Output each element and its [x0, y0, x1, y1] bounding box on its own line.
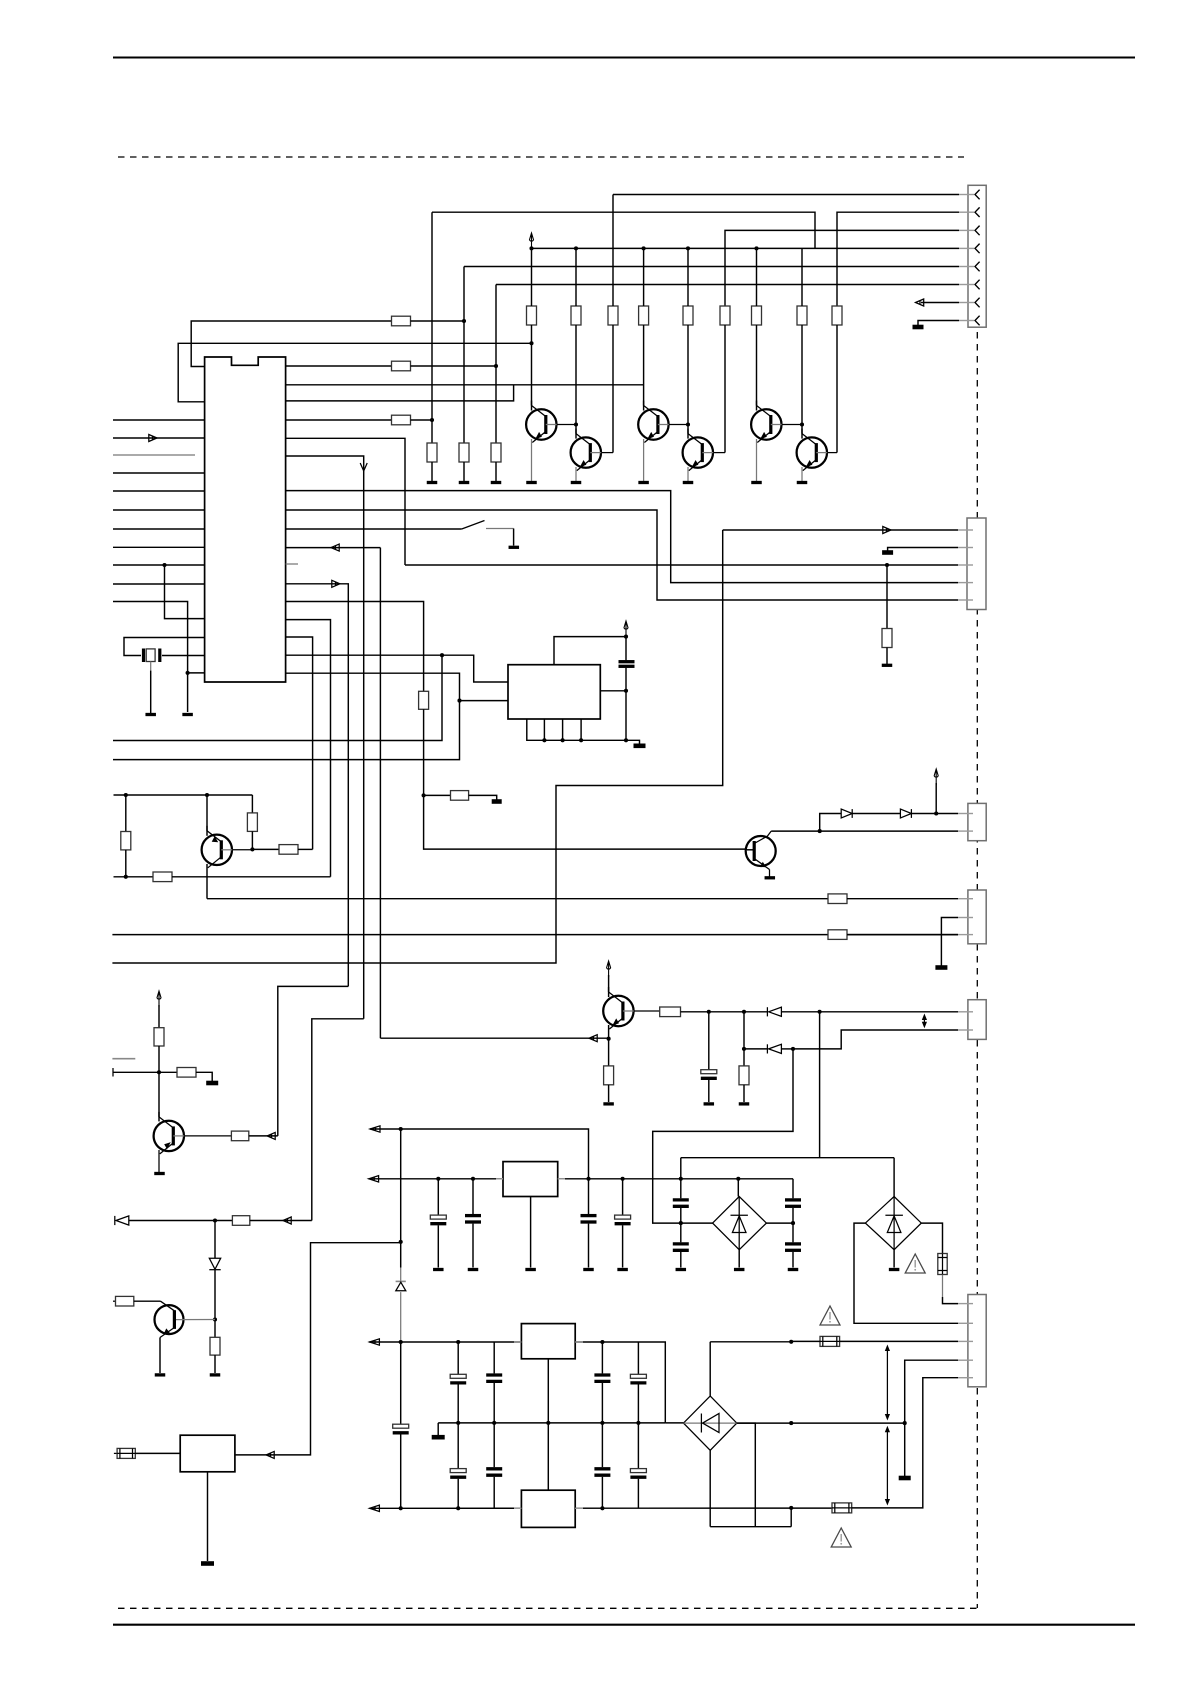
pin CN2-4 [958, 582, 973, 584]
wire BR3 bottom down [709, 1450, 711, 1526]
wire Q9 emitter down [608, 1025, 610, 1039]
wire Q4 collector drop [687, 425, 689, 439]
resistor R2 [392, 361, 411, 371]
wire ladder column x531 lower to Q1 collector [531, 325, 533, 411]
wire F3 to CN5 pin5 riser [852, 1378, 958, 1508]
wire R23 to ground [743, 1085, 745, 1102]
wire R22 to node [681, 1011, 709, 1013]
node F2 branch [789, 1340, 793, 1344]
pin CN1-3 [959, 229, 974, 231]
wire U1 pin y400 jog up [286, 385, 514, 401]
wire C14b to rail B [601, 1477, 603, 1509]
ground R23 [739, 1102, 750, 1105]
transistor Q7 [202, 835, 232, 865]
voltage regulator U2 [508, 665, 600, 719]
page bottom rule [113, 1624, 1135, 1626]
wire BR3 top riser [709, 1342, 711, 1396]
resistor R11 [828, 894, 847, 904]
tick page-left y1072 [112, 1068, 114, 1077]
node y876 R12 [124, 875, 128, 879]
offpage arrow rail A [369, 1339, 379, 1345]
signal arrow out of U1 y583 [332, 580, 340, 587]
node BR1 left rail [679, 1221, 683, 1225]
wire CN4 pin2 to ground [941, 918, 958, 966]
wire U2 output pin [600, 690, 626, 692]
ground C3 [433, 1268, 444, 1271]
ground R8 [492, 799, 502, 804]
wire U1 pin y490 to CN2 pin4 [286, 491, 958, 583]
wire supply node down to C1 [625, 637, 627, 661]
capacitor C5 [581, 1214, 597, 1217]
wire U1 pin y510 to CN2 pin5 [286, 510, 958, 600]
supply arrow Q9 [607, 961, 611, 977]
wire rail B [369, 1507, 832, 1509]
resistor ladder R x802 [797, 306, 807, 325]
fuse F3 [832, 1503, 852, 1513]
wire ladder column x802 upper [801, 248, 803, 306]
node U1 pin y672 junction [186, 671, 190, 675]
pin CN5-3 [958, 1340, 973, 1342]
wire column x725 to CN1 pin3 [725, 230, 959, 306]
resistor R13 [247, 813, 257, 832]
wire D5 to supply node [912, 813, 937, 815]
wire C8 to ground [680, 1252, 682, 1268]
pin CN1-4 [959, 247, 974, 249]
wire column x837 to CN1 pin2 [837, 212, 959, 306]
pin CN1-1 [959, 194, 974, 196]
resistor R16 [177, 1068, 196, 1078]
wire F2 to CN5 pin3 [840, 1340, 958, 1342]
node railB zener col [399, 1506, 403, 1510]
node R3 column [430, 418, 434, 422]
resistor ladder R x576 [571, 306, 581, 325]
wire C16 to rail B [400, 1434, 402, 1508]
wire ladder column x688 lower [687, 325, 689, 425]
capacitor C15 (electrolytic) [630, 1374, 646, 1378]
capacitor C4 [465, 1214, 481, 1217]
Q11 emitter diagonal [754, 859, 769, 870]
ground C6 [617, 1268, 628, 1271]
diode D3 [744, 1048, 767, 1050]
resistor R23 [739, 1066, 749, 1085]
wire U1 pin y456 down column x363 [286, 456, 364, 1019]
pin CN4-3 [958, 934, 973, 936]
node C2 top [707, 1010, 711, 1014]
signal arrow into U1 y547 [331, 544, 339, 551]
wire column x464 [463, 267, 465, 444]
node D3 branch [742, 1047, 746, 1051]
double arrow mid-railA [886, 1349, 888, 1417]
wire column x464 to CN1 pin5 [464, 266, 959, 268]
resistor R20 [116, 1296, 134, 1306]
node y700 branch [457, 699, 461, 703]
resistor R12 [121, 832, 131, 850]
bridge rectifier BR2 [865, 1197, 921, 1250]
wire Q7 collector from node [206, 795, 208, 836]
stub U4 in [514, 1341, 521, 1343]
wire R6 to ground [495, 462, 497, 481]
pin CN2-1 [958, 529, 973, 531]
node rail1129 zener column [399, 1127, 403, 1131]
resistor ladder R x613 [608, 306, 618, 325]
wire output node down to ground rail [625, 691, 627, 741]
wire y1157 link [681, 1157, 894, 1159]
wire U4 ground pin to mid rail [547, 1359, 549, 1490]
resistor R8 [451, 791, 469, 801]
offpage arrow rail y1178 [369, 1176, 379, 1182]
capacitor C15 upper lead [637, 1342, 639, 1374]
dashed board boundary top [118, 156, 964, 158]
wire supply arrow lead [935, 783, 937, 814]
node mid C15 [636, 1421, 640, 1425]
capacitor C14b [594, 1467, 610, 1470]
fuse F2 [820, 1336, 840, 1346]
wire R25 to column x312 [298, 848, 313, 850]
wire rail y876 [114, 876, 154, 878]
node BR1 top [736, 1177, 740, 1181]
resistor R1 [392, 316, 411, 326]
ground C5 [583, 1268, 594, 1271]
signal arrow y1220 [283, 1217, 291, 1224]
wire ladder column x688 upper [687, 248, 689, 306]
wire C15b to rail B [637, 1479, 639, 1509]
wire node x215 down to zener [214, 1221, 216, 1259]
Q10 emitter diagonal [160, 1328, 174, 1338]
double arrow mid-railB [886, 1430, 888, 1502]
wire R4 to ground [431, 462, 433, 481]
wire R15 to node y1072 [158, 1046, 160, 1072]
fuse F4 [117, 1448, 135, 1458]
pin CN6-2 [958, 830, 973, 832]
node rail B x791 [789, 1506, 793, 1510]
supply arrow CN6 [934, 769, 938, 785]
resistor R6 [491, 443, 501, 462]
pin CN3-2 [958, 1029, 973, 1031]
node R7 y795 [422, 793, 426, 797]
capacitor C2 (electrolytic) [701, 1070, 717, 1074]
capacitor C12 upper lead [493, 1342, 495, 1373]
pin CN4-2 [958, 917, 973, 919]
ground CN5 pin4 [899, 1476, 911, 1481]
ground Q5 emitter [756, 439, 758, 481]
wire node to R18 [215, 1220, 232, 1222]
capacitor C1 plates [619, 660, 635, 663]
wire U2 ground pin2 [543, 719, 545, 740]
wire zener column x400 [400, 1129, 402, 1268]
transistor Q1 [526, 409, 556, 439]
offpage arrow rail B [369, 1505, 379, 1511]
supply arrow VDD bus [529, 233, 533, 249]
ground CN1 pin8 [913, 325, 924, 330]
offpage arrow rail y1129 [370, 1126, 380, 1132]
node railA zener [399, 1340, 403, 1344]
ground R21 [603, 1102, 614, 1105]
capacitor C5 lead [588, 1179, 590, 1214]
wire BR3 left from mid rail [665, 1422, 683, 1424]
wire C12b to rail B [493, 1477, 495, 1509]
wire bridge BR1 ac2 from node x819 [819, 1012, 821, 1158]
resistor ladder R x531 [527, 306, 537, 325]
node BR1 right rail [791, 1221, 795, 1225]
capacitor C8 [673, 1242, 689, 1245]
wire link x363 to x311 column [312, 1019, 364, 1221]
wire left pin y601 to crystal ground node [113, 602, 188, 713]
node gnd pin2 [542, 738, 546, 742]
capacitor C11 (electrolytic) [450, 1374, 466, 1378]
node ground rail x626 [624, 738, 628, 742]
resistor ladder R x725 [720, 306, 730, 325]
wire x680 drop to rail [680, 1158, 682, 1179]
wire S1 to ground [513, 529, 515, 546]
wire Y2 output to column x310 [235, 1243, 401, 1455]
wire ground rail stub [626, 740, 640, 744]
wire rail A right segment to fuse F2 [710, 1341, 791, 1343]
node C4 [471, 1177, 475, 1181]
resistor R4 [427, 443, 437, 462]
ground Q2 emitter [575, 467, 577, 481]
wire C11b to rail B [457, 1479, 459, 1509]
wire loop riser to rail B [790, 1508, 792, 1527]
switch S1 blade [462, 521, 485, 530]
warning triangle W1 [905, 1254, 925, 1273]
signal arrow down on x363 column [360, 463, 367, 471]
wire CN1 pin2 jog segment [432, 212, 815, 248]
connector CN2 [967, 518, 986, 610]
wire bridge BR1 ac1 from node x793 [653, 1049, 793, 1223]
wire C10 to ground [792, 1252, 794, 1268]
ground C2 [704, 1102, 715, 1105]
wire U2 ground pin3 [562, 719, 564, 740]
ground Q6 emitter [801, 467, 803, 481]
node railB C11b [456, 1506, 460, 1510]
wire ladder column x643 upper [643, 248, 645, 306]
transistor Q10 (mirrored, base left) [155, 1305, 184, 1334]
wire rail corner x793 down through C9 [792, 1179, 794, 1199]
wire regulator rail y1178 [369, 1178, 793, 1180]
wire column x496 to CN1 pin6 [496, 284, 959, 286]
wire node x819 to CN3 pin1 [820, 1011, 958, 1013]
wire U1 pin y619 to column x330 [286, 620, 331, 877]
node C6 [621, 1177, 625, 1181]
transistor Q2 [571, 437, 601, 467]
ground crystal case [145, 713, 156, 716]
wire R19 to ground [214, 1355, 216, 1373]
wire column x432 [431, 212, 433, 443]
node mid C11 [456, 1421, 460, 1425]
wire supply to R15 [158, 1005, 160, 1028]
connector CN6 [968, 803, 986, 840]
capacitor C4 lead [472, 1179, 474, 1214]
wire node x793 to CN3 pin2 [793, 1030, 958, 1049]
ground R5 [459, 481, 470, 484]
wire R13 to base node [251, 831, 253, 849]
offpage arrow CN1 pin7 [916, 299, 924, 306]
zener DZ2 [396, 1280, 406, 1282]
node x680 rail [679, 1177, 683, 1181]
wire R18 to column x311 [250, 1220, 312, 1222]
capacitor C3 (electrolytic) [430, 1215, 446, 1219]
pin CN1-6 [959, 284, 974, 286]
wire DZ2 to rail A [400, 1292, 402, 1342]
dashed board boundary right [976, 332, 978, 1608]
wire page edge to node y1072 [113, 1071, 177, 1073]
pin CN5-4 [958, 1359, 973, 1361]
bridge rectifier BR3 [684, 1396, 737, 1450]
capacitor C16 column x400 lead [400, 1342, 402, 1424]
pin CN1-2 [959, 211, 974, 213]
wire C6 to ground [622, 1225, 624, 1267]
wire BR2 top from y1157 rail [893, 1158, 895, 1197]
wire column x380 down [379, 548, 381, 1039]
stub U5 out [575, 1507, 583, 1509]
transistor Q5 [751, 409, 781, 439]
connector CN1 [968, 185, 986, 327]
wire Q6 collector drop [801, 425, 803, 439]
wire Q10 emitter to ground [159, 1338, 161, 1374]
ground C4 [468, 1268, 479, 1271]
node Q10 collector [213, 1317, 217, 1321]
ground Q1 emitter [531, 439, 533, 481]
wire U1 right pin y420 to R3 [286, 419, 392, 421]
ground Q4 emitter [687, 467, 689, 481]
transistor Q11 (mirrored) [746, 836, 776, 866]
wire supply to Q9 collector [608, 975, 610, 997]
wire U1 pin y637 loop to crystal [124, 638, 205, 656]
wire column x496 [495, 285, 497, 444]
resistor ladder R x837 [832, 306, 842, 325]
wire R3 to column node [411, 419, 433, 421]
pin CN5-2 [958, 1322, 973, 1324]
terminator bar CN2 pin2 [882, 550, 893, 555]
capacitor C12b [486, 1467, 502, 1470]
wire F2 lead left [791, 1340, 820, 1342]
pin CN1-7 [959, 302, 974, 304]
node y795 Q7 collector [205, 793, 209, 797]
wire ladder column x613 lower to Q2 base [612, 325, 614, 453]
wire Q11 emitter to ground [769, 870, 771, 877]
wire C1 to U2 output node [625, 668, 627, 691]
wire BR2 minus to ground [893, 1250, 895, 1268]
warning triangle W2 [820, 1306, 840, 1325]
wire branch y565 to U1 pin y618 [165, 565, 205, 619]
bridge rectifier BR1 [713, 1197, 767, 1250]
signal arrow y1038 [589, 1035, 597, 1042]
capacitor C11 upper lead [457, 1342, 459, 1374]
wire supply node to CN6 pin1 [936, 813, 958, 815]
node railA C14 [600, 1340, 604, 1344]
wire node to C2 [708, 1012, 710, 1070]
wire ladder column x643 lower to Q3 collector [643, 325, 645, 411]
mid rail y1422 [438, 1422, 665, 1424]
wire U1 left pin y366 up-over to R1 [191, 321, 391, 367]
capacitor C14 upper lead [601, 1342, 603, 1373]
node y565 branch [162, 563, 166, 567]
node mid x791 [789, 1421, 793, 1425]
transistor Q4 [683, 437, 713, 467]
resistor ladder R x688 [683, 306, 693, 325]
wire D3 to node x793 [781, 1048, 793, 1050]
Q10 base diagonal [161, 1301, 175, 1311]
signal arrow CN2 pin1 [883, 527, 891, 534]
wire CN2 pin1 net [723, 529, 958, 531]
wire Y2 ground lead [207, 1472, 209, 1561]
wire C4 to ground [472, 1224, 474, 1268]
wire DZ1 to Q10 collector node [214, 1270, 216, 1320]
pin CN3-1 [958, 1011, 973, 1013]
wire CN2 pin2 termination [888, 548, 958, 552]
stub U3 in [496, 1178, 503, 1180]
capacitor C12 [486, 1373, 502, 1376]
signal arrow into Y2 [266, 1451, 274, 1458]
wire rail A [369, 1342, 665, 1423]
pin CN5-1 [958, 1303, 973, 1305]
BR2 internal diode [893, 1197, 895, 1250]
wire U1 left pin rows from page edge [113, 419, 205, 421]
diode D5 [900, 809, 911, 818]
wire C5 to ground [588, 1224, 590, 1268]
node pin4 mid rail [903, 1421, 907, 1425]
node U2 supply [624, 635, 628, 639]
capacitor C7 [673, 1198, 689, 1201]
zener DZ1 [209, 1258, 220, 1269]
resistor R25 [279, 845, 298, 855]
resistor R3 [392, 415, 411, 425]
wire U1 pin y655 to regulator U2 input [286, 655, 508, 682]
wire U1 pin y637 to column x312 [286, 637, 313, 849]
wire U1 left pin y455 (inactive, gray) [113, 454, 195, 456]
node supply CN6 [934, 811, 938, 815]
wire rail y935 from page edge to CN4 [112, 934, 958, 936]
ground Q8 [154, 1172, 165, 1175]
wire D2 to node x819 [781, 1011, 819, 1013]
microcontroller U1 [205, 357, 286, 682]
ground crystal node [182, 713, 193, 716]
voltage regulator U3 [503, 1162, 558, 1197]
crystal X1 right plate [158, 649, 161, 663]
capacitor C16 (electrolytic) [393, 1424, 409, 1428]
wire node y795 to R8 and ground stub [424, 794, 451, 796]
wire U1 pin y547 feedback from column x380 [286, 547, 381, 549]
wire U1 pin y672 [188, 672, 205, 674]
wire R14 to column x330 [172, 876, 331, 878]
node collector riser [818, 829, 822, 833]
wire ladder column x531 upper [531, 248, 533, 306]
wire BR2 left to CN5 pin2 [854, 1223, 958, 1323]
stub U4 out [575, 1341, 583, 1343]
wire CN2 pin3 net y565 [405, 564, 958, 566]
node U2 output [624, 689, 628, 693]
capacitor C12b lower lead [493, 1423, 495, 1467]
wire R1 to column node [411, 320, 465, 322]
ground Q3 emitter [643, 439, 645, 481]
wire U1 left pin y401 up-over to VDD column [178, 343, 531, 402]
resistor R12 column [125, 795, 127, 832]
ground C10 [788, 1268, 799, 1271]
ground R9 [882, 664, 893, 667]
wire Q11 collector to CN6 pin2 [771, 830, 958, 832]
connector CN5 [968, 1295, 986, 1387]
Q11 collector diagonal [754, 831, 771, 843]
wire node rail y795 [114, 794, 253, 796]
node x588 drop [586, 1177, 590, 1181]
dashed board boundary bottom [118, 1607, 977, 1609]
wire U1 pin y601 to R7 column [286, 602, 424, 692]
node railB C14b [600, 1506, 604, 1510]
wire R8 to ground stub [469, 795, 497, 800]
wire C9 to node [792, 1208, 794, 1223]
capacitor C6 (electrolytic) [615, 1215, 631, 1219]
capacitor C11b (electrolytic) [450, 1469, 466, 1473]
